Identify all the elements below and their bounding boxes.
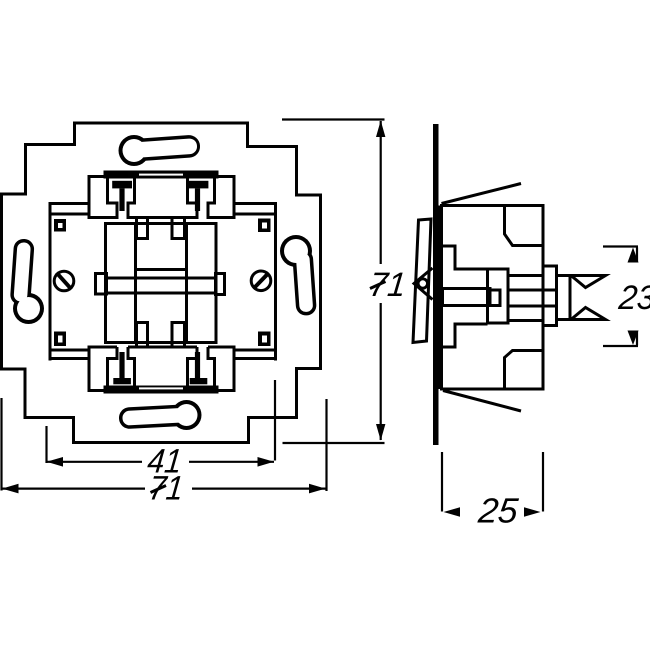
housing center ledge: [136, 268, 187, 271]
svg-text:71: 71: [368, 266, 408, 304]
frame square hole bottom-right: [258, 332, 271, 347]
slot connectors top: [137, 218, 185, 224]
T mark bottom-right: [190, 352, 208, 384]
dimension line 41: [47, 461, 274, 463]
terminal window bottom-left: [108, 347, 135, 387]
terminal window top-right: [188, 177, 215, 220]
support frame right edge: [274, 204, 277, 361]
screw left: [54, 271, 74, 291]
crossbar on 7 vertical label: [370, 282, 386, 289]
terminal block top outline: [89, 177, 234, 220]
frame square hole bottom-left: [54, 332, 66, 347]
extension line 71b left: [0, 398, 2, 491]
housing notch top-left: [137, 224, 148, 239]
extension line 25 left: [441, 452, 443, 512]
terminal block bottom dark bar: [104, 386, 219, 394]
terminal block top dark bar: [104, 171, 219, 179]
support frame left edge: [49, 204, 52, 361]
wall-body merge filler: [436, 206, 441, 390]
svg-text:25: 25: [476, 492, 521, 531]
collar: [543, 266, 557, 326]
screw right: [251, 271, 271, 291]
housing notch top-right: [172, 224, 185, 239]
dimension line 71 bottom: [2, 488, 326, 490]
switch housing body: [106, 224, 217, 343]
claw diagonal bottom: [443, 391, 521, 412]
housing inner vertical left: [134, 224, 137, 343]
tip triangle top: [571, 276, 606, 288]
keyhole slot left: [10, 238, 44, 324]
claw diagonal top: [442, 184, 522, 204]
arrow 23 bottom: [628, 331, 639, 346]
pivot ring: [418, 279, 427, 288]
arrow 25 left: [444, 507, 461, 517]
extension line 71 bottom: [283, 442, 385, 444]
terminal window top-left: [108, 177, 135, 220]
slot connectors bottom: [137, 343, 185, 348]
frame square hole top-left: [54, 219, 66, 232]
arrow up: [376, 121, 385, 138]
extension line 25 right: [542, 452, 544, 512]
chamfer top-right: [505, 206, 544, 246]
extension line 41 right: [274, 380, 276, 461]
arrow 25 right: [524, 507, 541, 517]
housing notch bottom-left: [137, 323, 148, 343]
crossbar on 7 bottom label: [151, 486, 167, 493]
terminal window bottom-right: [188, 347, 215, 387]
keyhole slot top: [119, 134, 201, 166]
keyhole slot bottom: [118, 400, 201, 430]
pivot wedge: [414, 268, 433, 300]
plunger block: [488, 269, 509, 323]
wall line side view: [433, 124, 439, 445]
T mark top-right: [189, 181, 209, 211]
dimension line 71 vertical: [380, 121, 382, 440]
keyhole slot right: [280, 235, 317, 316]
lower inner ledge: [442, 324, 488, 347]
plunger rod: [443, 289, 491, 306]
T mark bottom-left: [113, 352, 131, 384]
side body outline: [442, 206, 544, 390]
terminal block bottom outline: [89, 346, 234, 391]
upper inner ledge: [442, 246, 488, 269]
svg-text:23: 23: [616, 279, 650, 317]
housing inner vertical right: [185, 224, 188, 343]
chamfer bottom-right: [505, 351, 544, 390]
crossbar ear left: [96, 274, 107, 295]
tip vertical: [569, 275, 572, 321]
extension line 71b right: [325, 399, 327, 491]
mounting plate outline: [2, 123, 321, 443]
shaft outer lines: [508, 276, 543, 321]
svg-text:71: 71: [147, 470, 185, 508]
arrow down: [376, 424, 385, 441]
T mark top-left: [112, 181, 132, 211]
extension line 41 left: [45, 426, 47, 463]
extension line 23 bottom: [603, 345, 638, 347]
claw lever: [413, 219, 431, 343]
crossbar band: [107, 278, 216, 293]
arrow 23 top: [628, 248, 639, 263]
frame square hole top-right: [258, 219, 271, 233]
rod end cap: [489, 290, 501, 306]
tip horizontals: [557, 276, 572, 320]
support frame bottom rail: [49, 350, 278, 359]
extension line 23 top: [603, 245, 638, 247]
extension line 71 top: [282, 118, 385, 120]
shaft inner lines: [508, 290, 557, 306]
tip triangle bottom: [571, 308, 606, 320]
support frame top rail: [49, 204, 278, 215]
crossbar ear right: [216, 274, 225, 295]
housing notch bottom-right: [172, 323, 185, 343]
